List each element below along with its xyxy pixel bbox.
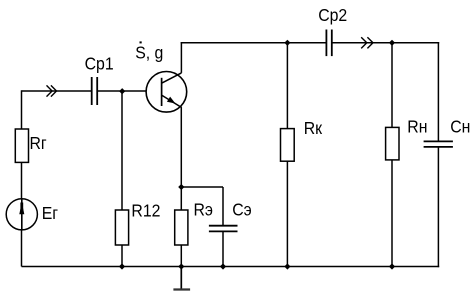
- wire: Cn branch vertical lower: [437, 147, 439, 267]
- svg-text:S, g: S, g: [135, 43, 163, 63]
- junction dot: emitter node: [178, 184, 184, 190]
- svg-text:Ср1: Ср1: [85, 54, 114, 74]
- wire: Rg to source Eg and through to bottom: [21, 162, 23, 266]
- junction dot: Rk top node: [284, 40, 290, 46]
- source Eg arrowhead: [19, 202, 24, 214]
- svg-text:Ср2: Ср2: [318, 5, 347, 25]
- svg-text:Сн: Сн: [450, 117, 470, 137]
- resistor R12: [115, 210, 128, 245]
- wire: Rn branch vertical upper: [391, 43, 393, 128]
- junction dot: Re bottom (ground node): [178, 263, 184, 269]
- svg-text:Rк: Rк: [304, 118, 323, 138]
- wire: Re to bottom rail: [180, 245, 182, 267]
- svg-text:Rг: Rг: [30, 133, 47, 153]
- resistor Rk: [281, 129, 295, 162]
- junction dot: base node: [119, 88, 125, 94]
- wire: Rk branch vertical lower: [286, 161, 288, 266]
- transistor VT1 emitter arrowhead: [167, 97, 176, 104]
- source Eg internal shaft: [21, 199, 23, 230]
- output arrow chevron 1: [361, 37, 367, 48]
- capacitor Cn plates: [424, 141, 453, 147]
- capacitor Cp2 plates: [326, 30, 331, 57]
- transistor VT1 collector diagonal: [162, 73, 182, 83]
- source Eg circle: [6, 199, 37, 230]
- svg-text:Rэ: Rэ: [194, 199, 214, 219]
- junction dot: Rn bottom: [389, 263, 395, 269]
- junction dot: Ce bottom: [220, 263, 226, 269]
- transistor VT1 base bar: [161, 78, 163, 106]
- wire: Rn branch vertical lower: [391, 160, 393, 267]
- wire: emitter node to Ce horizontal: [181, 186, 223, 188]
- capacitor Cp1 plates: [92, 77, 98, 105]
- wire: input horizontal left segment (source to Cp1): [22, 90, 92, 92]
- transistor VT1 emitter diagonal: [162, 95, 182, 108]
- wire: R12 branch vertical upper: [121, 91, 123, 210]
- svg-text:Ег: Ег: [42, 203, 58, 223]
- transistor VT1 circle: [146, 72, 187, 113]
- wire: Ce vertical lower: [222, 231, 224, 266]
- wire: bottom rail: [22, 266, 440, 268]
- output arrow chevron 2: [367, 37, 373, 48]
- junction dot: Rk bottom: [284, 263, 290, 269]
- svg-text:Rн: Rн: [407, 117, 427, 137]
- wire: left vertical (Rg branch): [21, 90, 23, 129]
- wire: R12 branch vertical lower: [121, 245, 123, 267]
- wire: emitter vertical (to Re): [180, 108, 182, 210]
- wire: Rk branch vertical upper: [286, 43, 288, 129]
- svg-text:Сэ: Сэ: [232, 199, 252, 219]
- ground bar: [173, 288, 190, 290]
- resistor Rg: [15, 129, 28, 162]
- svg-text:R12: R12: [131, 200, 160, 220]
- label S, g: [135, 41, 163, 63]
- wire: Cp1 to base node: [97, 90, 161, 92]
- capacitor Ce plates: [209, 226, 238, 232]
- ground stub wire: [180, 267, 182, 290]
- input arrow chevron 1: [47, 85, 53, 96]
- resistor Rn: [386, 127, 399, 159]
- junction dot: Rn top node: [389, 40, 395, 46]
- wire: Cn branch vertical upper: [437, 42, 439, 141]
- wire: collector vertical up: [180, 42, 182, 73]
- input arrow chevron 2: [51, 85, 57, 96]
- wire: top rail (collector to Cp2): [181, 42, 327, 44]
- resistor Re: [175, 210, 188, 245]
- junction dot: R12 bottom: [119, 263, 125, 269]
- wire: Ce vertical upper: [222, 187, 224, 226]
- wire: top rail (Cp2 to right corner): [332, 42, 439, 44]
